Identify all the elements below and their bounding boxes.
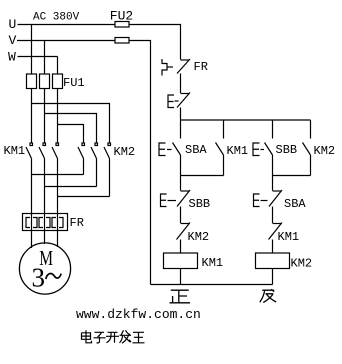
- SBA E actuator: [159, 143, 172, 156]
- label fan reverse (Chinese): [260, 289, 276, 302]
- wire left branch down: [180, 176, 182, 191]
- wire to KM1 coil: [180, 240, 182, 254]
- wire to KM2 interlock contact: [180, 207, 182, 224]
- FR heater element 2: [39, 214, 50, 231]
- fuse FU1 pole 1: [27, 74, 37, 89]
- wire crossover V to KM2 middle pole: [45, 114, 97, 144]
- wire KM1 pole 2 down to FR: [44, 159, 46, 214]
- contactor KM1 main contact pole 3: [52, 143, 59, 159]
- wire phase 3 below FU1 to KM1 contact: [57, 89, 59, 144]
- caption wang (Chinese char 5): [133, 332, 145, 343]
- svg-text:KM2: KM2: [188, 230, 210, 244]
- button SBA NO start forward (left branch left edge): [173, 120, 181, 176]
- wire phase 1 below FU1 to KM1 contact: [31, 89, 33, 144]
- contact KM1 self-holding NO (left branch right edge): [216, 120, 224, 176]
- wire KM2 pole 2 down: [96, 159, 98, 187]
- contactor KM1 main contact pole 1: [26, 143, 33, 159]
- stop pushbutton E actuator: [168, 95, 179, 108]
- button SBB NC interlock (left branch): [177, 190, 190, 207]
- FR heater element 1: [26, 214, 37, 231]
- svg-text:SBB: SBB: [189, 197, 211, 211]
- wire KM1 coil to bottom bus: [180, 269, 182, 285]
- wire FR to motor lead 1: [31, 231, 33, 249]
- caption dian (Chinese char 1): [82, 330, 92, 343]
- svg-text:KM1: KM1: [202, 256, 224, 270]
- wire KM1 pole 1 down to FR: [31, 159, 33, 214]
- thermal relay FR heater box: [23, 214, 68, 231]
- wire U phase horizontal to FU2: [18, 24, 116, 26]
- fuse FU2 pole 2: [115, 38, 129, 44]
- svg-text:SBA: SBA: [284, 197, 306, 211]
- contactor KM1 main contact pole 2: [39, 143, 46, 159]
- motor M 3-phase circle: [19, 243, 70, 294]
- svg-text:FR: FR: [194, 60, 208, 74]
- wire KM2 coil to bottom bus: [272, 269, 274, 285]
- wire KM2 pole 3 down: [109, 159, 111, 197]
- coil KM1: [164, 253, 198, 269]
- wire V phase from FU2 down to bottom bus: [129, 41, 151, 285]
- svg-text:SBA: SBA: [185, 143, 207, 157]
- contactor KM2 main contact pole 2: [91, 143, 98, 159]
- caption fa (Chinese char 4): [120, 330, 132, 343]
- wire merge pole 2: [45, 186, 97, 188]
- wire left branch parallel bottom: [181, 175, 224, 177]
- wire control rail FR to stop button: [180, 74, 182, 94]
- contact KM1 NC electrical interlock: [269, 223, 283, 240]
- svg-text:SBB: SBB: [276, 143, 298, 157]
- svg-text:AC 380V: AC 380V: [33, 12, 80, 24]
- svg-text:V: V: [9, 33, 17, 48]
- svg-text:FR: FR: [70, 216, 84, 230]
- svg-text:U: U: [9, 17, 17, 32]
- wire V drop to FU1: [44, 41, 46, 75]
- wire merge pole 1: [32, 174, 84, 176]
- svg-text:W: W: [8, 50, 16, 65]
- svg-text:FU1: FU1: [63, 76, 85, 90]
- fuse FU1 pole 2: [40, 74, 50, 89]
- label 3~ motor: [32, 263, 62, 293]
- wire U phase from FU2 to control rail corner: [129, 25, 181, 60]
- wire right branch parallel bottom: [273, 175, 311, 177]
- wire U drop to FU1: [31, 25, 33, 75]
- wire bottom bus to V rail: [151, 284, 273, 286]
- button SBB NO start reverse (right branch left edge): [265, 120, 273, 176]
- SBB E actuator: [253, 143, 264, 156]
- wire crossover W to KM2 left pole: [58, 125, 84, 144]
- wire W phase horizontal: [18, 56, 58, 58]
- FR thermal actuator symbol: [162, 59, 173, 76]
- wire FR to motor lead 2: [44, 231, 46, 245]
- wire V phase horizontal to FU2: [17, 40, 115, 42]
- coil KM2: [256, 253, 290, 269]
- wire to KM2 coil: [272, 240, 274, 254]
- caption zi (Chinese char 2): [94, 332, 106, 343]
- label zheng forward (Chinese): [170, 290, 191, 303]
- FR heater element 3: [52, 214, 63, 231]
- wire merge pole 3: [58, 196, 110, 198]
- svg-text:KM2: KM2: [114, 145, 136, 159]
- wire stop button to top bus: [180, 108, 182, 121]
- stop pushbutton normally-closed contact: [177, 93, 190, 108]
- contact KM2 NC electrical interlock: [177, 223, 191, 240]
- contactor KM2 main contact pole 1: [78, 143, 85, 159]
- svg-text:KM1: KM1: [227, 144, 249, 158]
- fuse FU1 pole 3: [53, 74, 63, 89]
- wire crossover U to KM2 right pole: [32, 104, 110, 144]
- caption kai (Chinese char 3): [106, 332, 119, 343]
- wire phase 2 below FU1 to KM1 contact: [44, 89, 46, 144]
- contactor KM2 main contact pole 3: [104, 143, 111, 159]
- svg-text:KM2: KM2: [291, 257, 313, 271]
- wire FR to motor lead 3: [57, 231, 59, 248]
- wire W drop to FU1: [57, 57, 59, 75]
- contact KM2 self-holding NO (right branch right edge): [303, 120, 311, 176]
- contact FR normally-closed in control rail: [177, 59, 190, 74]
- SBB NC E actuator: [161, 194, 177, 207]
- svg-text:KM2: KM2: [314, 144, 336, 158]
- wire right branch down: [272, 176, 274, 191]
- wire to KM1 interlock contact: [272, 207, 274, 224]
- wire KM1 pole 3 down to FR: [57, 159, 59, 214]
- svg-text:KM1: KM1: [278, 230, 300, 244]
- wire top bus: [181, 119, 311, 121]
- svg-text:3: 3: [32, 263, 46, 293]
- SBA NC E actuator: [254, 194, 268, 207]
- svg-text:www.dzkfw.com.cn: www.dzkfw.com.cn: [76, 307, 201, 322]
- svg-text:KM1: KM1: [4, 144, 26, 158]
- button SBA NC interlock (right branch): [269, 190, 282, 207]
- wire KM2 pole 1 down: [83, 159, 85, 175]
- fuse FU2 pole 1: [115, 22, 129, 28]
- svg-text:FU2: FU2: [110, 8, 133, 23]
